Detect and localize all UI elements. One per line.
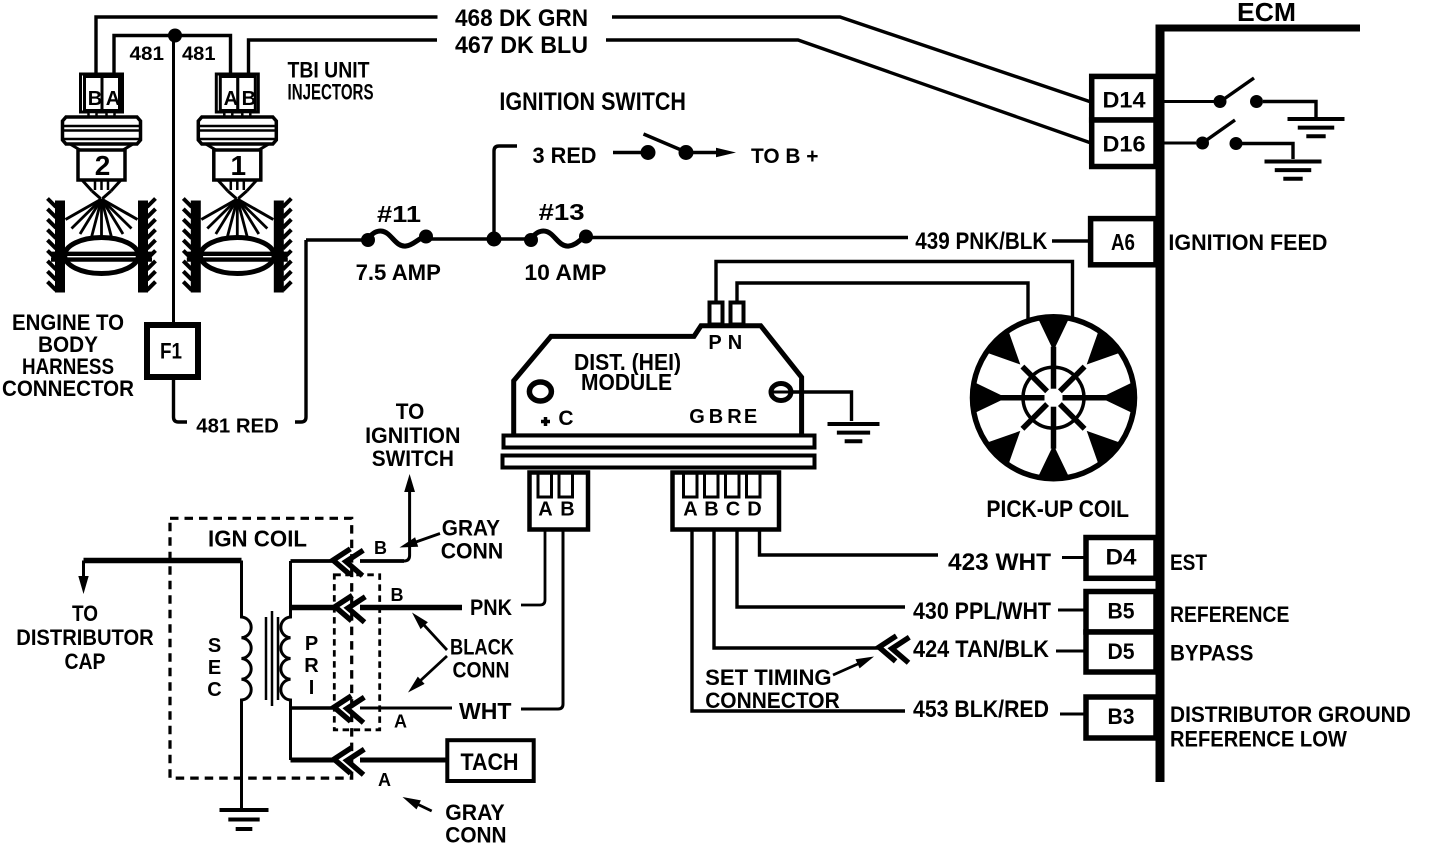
wire 424 to D5 [1056,650,1088,653]
svg-text:7.5 AMP: 7.5 AMP [356,260,441,285]
svg-text:467 DK BLU: 467 DK BLU [455,32,588,59]
injector 2 spray cone [66,199,138,252]
label A row 4 [378,770,391,790]
ECM pin box B5 [1086,592,1156,633]
ECM top line [1156,25,1360,32]
svg-text:D16: D16 [1103,132,1146,157]
label G B R E [689,406,757,428]
wire coil + to PNK chevron [291,605,337,611]
injector 1 nozzle [218,180,257,199]
wire 453 BLK/RED from module A [692,530,905,712]
svg-text:CONN: CONN [453,658,510,683]
svg-text:GRAY: GRAY [445,800,505,825]
label BLACK CONN [450,635,514,683]
wire module P to pick-up coil [716,262,1073,319]
svg-text:B: B [709,406,723,428]
svg-text:SET TIMING: SET TIMING [705,665,831,690]
label IGNITION SWITCH [499,88,686,116]
svg-text:PNK: PNK [470,595,512,620]
svg-text:IGNITION: IGNITION [365,423,460,448]
secondary lead to distributor cap [78,561,241,595]
wire 481 RED bracket up to fuse line [295,240,306,422]
svg-text:10 AMP: 10 AMP [524,260,606,285]
HEI module outline [514,326,802,436]
svg-text:A: A [538,499,552,521]
svg-text:A: A [394,712,407,732]
svg-text:TACH: TACH [461,749,519,776]
arrows black conn [408,613,447,693]
svg-text:G: G [689,406,705,428]
svg-text:D: D [747,499,761,521]
svg-text:PICK-UP COIL: PICK-UP COIL [986,496,1129,523]
label 439 PNK/BLK [915,228,1048,255]
label 430 PPL/WHT [913,598,1051,625]
ignition switch symbol [613,134,736,160]
module label DIST. (HEI) MODULE [574,349,681,395]
ECM pin box D5 [1086,632,1156,672]
coil ground [220,810,269,829]
svg-text:2: 2 [95,150,111,181]
label 481 (left) [130,44,165,65]
svg-text:N: N [728,332,742,354]
module screw hole right [771,384,791,401]
svg-text:INJECTORS: INJECTORS [288,80,374,105]
svg-text:IGNITION FEED: IGNITION FEED [1168,230,1327,255]
svg-text:B5: B5 [1108,599,1135,624]
label GRAY CONN bottom [445,800,506,844]
label EST [1170,550,1207,575]
svg-text:430 PPL/WHT: 430 PPL/WHT [913,598,1051,625]
svg-text:EST: EST [1170,550,1207,575]
svg-text:P: P [708,332,721,354]
black connector chevron row 3 [333,695,365,723]
label 424 TAN/BLK [913,636,1050,663]
label TO IGNITION SWITCH [365,399,460,471]
svg-text:C: C [207,679,221,701]
black connector chevron row 2 [334,594,366,622]
fuse #11 [361,230,433,248]
module ground symbol [828,424,880,441]
svg-text:TO: TO [72,601,98,626]
module connector shell A B [530,473,589,530]
svg-text:481 RED: 481 RED [196,416,278,438]
TACH box [447,740,533,781]
wire 481 bus joining injector A terminals [114,36,231,77]
svg-text:B: B [374,538,387,558]
ECM internal switch from D16 [1156,120,1293,159]
wire 430 to B5 [1058,609,1088,612]
label TBI UNIT INJECTORS [288,58,374,105]
label #11 [377,201,421,227]
label TO DISTRIBUTOR CAP [16,601,154,674]
module ground wire [791,392,852,421]
injector 2 nozzle [82,180,121,199]
label GRAY CONN top [441,516,504,564]
wire WHT to module pin B [521,530,563,710]
pick-up coil [973,317,1135,479]
label 468 DK GRN [455,5,588,32]
svg-text:CONN: CONN [441,539,504,564]
junction dot at 3 RED tap [487,232,502,247]
wire 481 below F1 with bracket [174,377,188,422]
wire 423 WHT from module D [760,530,939,556]
label 3 RED [533,143,597,168]
injector 1 spray cone [201,199,273,252]
svg-text:DISTRIBUTOR: DISTRIBUTOR [16,625,154,650]
ignition coil dashed box [170,518,352,778]
ignition feed wire [306,238,366,242]
module mounting rail upper [504,436,815,448]
wire 467 to ECM pin D16 [606,40,1091,143]
module pin N [731,303,744,325]
svg-text:CONNECTOR: CONNECTOR [705,688,840,713]
svg-text:WHT: WHT [459,698,512,724]
arrow gray conn bottom [403,797,432,811]
module mounting rail lower [503,456,815,468]
label 453 BLK/RED [913,696,1049,723]
ECM label [1237,0,1296,27]
injector 2 throttle plate [51,238,152,274]
svg-text:MODULE: MODULE [581,369,672,395]
wire 423 to D4 [1062,556,1088,559]
label #13 [539,199,585,225]
label B row 2 [391,585,404,605]
svg-text:R: R [304,655,319,677]
svg-text:BYPASS: BYPASS [1170,641,1253,666]
wire coil - to TACH chevron [291,758,335,763]
ECM pin box D16 [1092,120,1156,167]
svg-text:481: 481 [130,44,165,65]
label A row 3 [394,712,407,732]
label DISTRIBUTOR GROUND REFERENCE LOW [1170,702,1411,752]
label 423 WHT [948,549,1051,576]
wire 468 to ECM pin D14 [612,17,1091,102]
svg-text:S: S [208,635,221,657]
arrow set timing [833,657,874,676]
label WHT [459,698,512,724]
label IGNITION FEED [1168,230,1327,255]
label TO B + [751,145,819,168]
svg-text:P: P [305,633,318,655]
coil core [266,611,278,706]
svg-text:B: B [242,88,256,110]
svg-text:A6: A6 [1111,229,1135,255]
svg-text:TO: TO [396,399,425,424]
svg-text:ECM: ECM [1237,0,1296,27]
svg-text:REFERENCE LOW: REFERENCE LOW [1170,727,1347,752]
label P N [708,332,742,354]
ECM pin box A6 [1091,219,1156,265]
label 10 AMP [524,260,606,285]
svg-text:453 BLK/RED: 453 BLK/RED [913,696,1049,723]
svg-text:TO B +: TO B + [751,145,819,168]
wire PNK [360,605,462,611]
module pin P [710,303,723,325]
svg-text:C: C [558,407,573,430]
inner dashed connector box [334,575,379,730]
svg-text:D4: D4 [1106,545,1138,570]
svg-text:A: A [378,770,391,790]
ECM pin box B3 [1086,697,1156,738]
svg-text:481: 481 [182,44,216,65]
ECM vertical line [1156,25,1165,783]
svg-text:424 TAN/BLK: 424 TAN/BLK [913,636,1050,663]
svg-text:CAP: CAP [65,649,106,674]
svg-text:B: B [391,585,404,605]
label 481 (right) [182,44,216,65]
wire 481 down to fuse F1 [172,36,175,328]
svg-text:#13: #13 [539,199,585,225]
svg-text:CONN: CONN [445,823,506,844]
wire coil + to ignition switch [291,474,416,561]
svg-text:GRAY: GRAY [442,516,501,541]
label 481 RED [196,416,278,438]
label ENGINE TO BODY HARNESS CONNECTOR [2,310,134,401]
svg-text:E: E [208,657,221,679]
svg-text:E: E [744,406,757,428]
svg-text:B: B [704,499,718,521]
label S E C [207,635,221,701]
wire between fuses [426,237,531,241]
svg-text:B: B [88,88,102,110]
svg-text:3 RED: 3 RED [533,143,597,168]
svg-text:R: R [727,406,742,428]
arrow gray conn top [400,534,441,548]
ECM pin box D4 [1086,538,1156,579]
label BYPASS [1170,641,1253,666]
label B row 1 [374,538,387,558]
gray connector chevron row 1 [332,548,364,576]
set timing connector chevron [878,635,910,663]
ECM pin box D14 [1092,76,1156,120]
svg-text:F1: F1 [160,339,182,364]
label P R I [304,633,319,699]
module connector shell A B C D [673,473,780,530]
injector 1 throttle plate [187,238,288,274]
wire coil - to WHT chevron [291,706,337,710]
svg-text:A: A [683,499,697,521]
label PNK [470,595,512,620]
svg-text:CONNECTOR: CONNECTOR [2,376,134,401]
injector 1 throttle bore walls [183,199,291,293]
junction dot on 481 bus [168,29,182,43]
svg-text:B3: B3 [1108,704,1135,729]
label SET TIMING CONNECTOR [705,665,840,713]
label IGN COIL [208,526,307,552]
wire to TACH [360,758,458,763]
svg-text:B: B [560,499,574,521]
svg-text:C: C [726,499,740,521]
injector 1 connector (A/B) [216,74,258,118]
injector 1 body [198,117,276,181]
injector 2 throttle bore walls [48,199,156,293]
wire 467 from injector 1 terminal B up and right [249,40,438,76]
svg-text:D5: D5 [1108,639,1135,664]
svg-text:1: 1 [231,150,247,181]
wire 430 PPL/WHT from module C [737,530,905,608]
fuse F1 (engine-to-body harness) [147,325,198,377]
svg-text:IGN COIL: IGN COIL [208,526,307,552]
svg-text:A: A [106,88,120,110]
svg-text:DISTRIBUTOR GROUND: DISTRIBUTOR GROUND [1170,702,1411,727]
wire fuse #13 to 439 label [586,236,908,240]
svg-text:BLACK: BLACK [450,635,514,660]
gray connector chevron row 4 [333,747,365,775]
wire 3 RED bracket from fuse junction [494,146,517,240]
wire 424 TAN/BLK from module B [714,530,879,649]
svg-text:IGNITION SWITCH: IGNITION SWITCH [499,88,686,116]
ECM internal switch from D14 [1156,78,1316,117]
svg-text:439 PNK/BLK: 439 PNK/BLK [915,228,1048,255]
wire WHT [360,707,452,710]
wire 468 from injector 2 terminal B up and right [96,17,438,76]
ground for D14 switch [1288,119,1345,136]
wire 439 to A6 [1052,239,1088,243]
svg-text:423 WHT: 423 WHT [948,549,1051,576]
label + C [541,407,574,430]
svg-text:#11: #11 [377,201,421,227]
coil secondary winding [242,561,252,811]
wire PNK to module pin A [521,530,545,606]
injector 2 body [63,117,141,181]
label 7.5 AMP [356,260,441,285]
label PICK-UP COIL [986,496,1129,523]
wire module N to pick-up coil [737,283,1028,320]
label 467 DK BLU [455,32,588,59]
svg-text:468 DK GRN: 468 DK GRN [455,5,588,32]
svg-text:A: A [224,88,238,110]
fuse #13 [524,230,593,248]
svg-text:I: I [309,677,315,699]
module screw hole left [529,382,551,401]
coil primary winding [281,561,291,760]
svg-text:REFERENCE: REFERENCE [1170,602,1289,627]
svg-text:SWITCH: SWITCH [372,446,454,471]
svg-text:D14: D14 [1103,88,1147,113]
wire 453 to B3 [1060,713,1088,716]
ground for D16 switch [1265,162,1322,179]
injector 2 connector (B/A) [81,74,123,118]
label REFERENCE [1170,602,1289,627]
